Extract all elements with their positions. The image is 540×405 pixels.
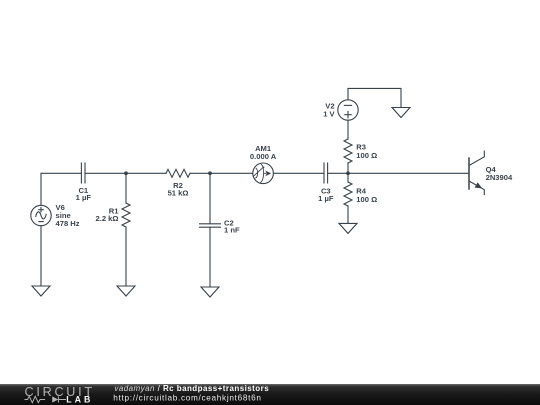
ground (V6) xyxy=(32,286,50,296)
svg-text:100 Ω: 100 Ω xyxy=(356,195,377,204)
label R2 xyxy=(168,181,189,198)
svg-text:http://circuitlab.com/ceahkjnt: http://circuitlab.com/ceahkjnt68t6n xyxy=(113,393,261,402)
svg-text:51 kΩ: 51 kΩ xyxy=(168,189,189,198)
label V6 xyxy=(56,203,80,228)
svg-text:1 V: 1 V xyxy=(323,110,335,119)
wire node A to R1 xyxy=(125,173,127,203)
label C3 xyxy=(318,186,334,203)
svg-text:vadamyan / Rc bandpass+transis: vadamyan / Rc bandpass+transistors xyxy=(114,384,269,393)
svg-text:2N3904: 2N3904 xyxy=(486,173,513,182)
resistor R3 xyxy=(344,139,352,163)
wire node B to C2 xyxy=(209,173,211,224)
wire R2 to node B xyxy=(190,172,210,174)
capacitor C1 xyxy=(81,163,85,183)
wire R4 to ground xyxy=(347,206,349,223)
ground (C2) xyxy=(201,287,219,297)
node C junction xyxy=(346,171,350,175)
label C1 xyxy=(76,186,92,202)
node B junction xyxy=(208,171,212,175)
wire V6 top lead to C1 xyxy=(41,173,81,205)
svg-text:1 nF: 1 nF xyxy=(224,225,240,234)
resistor R1 xyxy=(122,203,130,227)
wire AM1 to C3 xyxy=(273,172,324,174)
voltage source V6 xyxy=(31,205,51,225)
wire node C to R3 xyxy=(347,163,349,173)
wire V6 to ground xyxy=(40,226,42,286)
capacitor C3 xyxy=(324,163,328,183)
label V2 xyxy=(323,101,335,118)
ground (R1) xyxy=(117,286,135,296)
label Q4 xyxy=(486,165,513,182)
node A junction xyxy=(124,171,128,175)
wire C1 to node A xyxy=(85,172,126,174)
footer bar xyxy=(0,384,540,405)
label R3 xyxy=(356,143,377,161)
wire node C to R4 xyxy=(347,173,349,182)
wire R3 to V2 xyxy=(347,120,349,139)
svg-text:0.000 A: 0.000 A xyxy=(250,152,277,161)
svg-text:1 µF: 1 µF xyxy=(76,193,92,202)
label AM1 xyxy=(250,144,277,161)
label R4 xyxy=(356,186,377,203)
ground (V2) xyxy=(392,108,410,118)
resistor R2 xyxy=(166,169,190,177)
transistor Q4 xyxy=(469,151,484,195)
ammeter AM1 xyxy=(253,163,274,184)
wire V2 to ground xyxy=(348,88,401,107)
label R1 xyxy=(96,206,120,223)
ground (R4) xyxy=(339,223,357,233)
resistor R4 xyxy=(344,182,352,206)
wire node B to AM1 xyxy=(210,172,253,174)
wire node A to R2 xyxy=(126,172,166,174)
CircuitLab logo resistor zigzag and diode xyxy=(25,396,67,402)
svg-text:100 Ω: 100 Ω xyxy=(356,151,377,160)
voltage source V2 xyxy=(338,100,358,120)
svg-text:LAB: LAB xyxy=(66,395,93,405)
svg-text:2.2 kΩ: 2.2 kΩ xyxy=(96,214,119,223)
svg-text:478 Hz: 478 Hz xyxy=(56,219,80,228)
svg-text:1 µF: 1 µF xyxy=(318,194,334,203)
capacitor C2 xyxy=(200,224,221,227)
wire C3 to node C xyxy=(328,172,348,174)
wire node C to Q4 base xyxy=(348,172,469,174)
label C2 xyxy=(224,218,240,234)
wire C2 to ground xyxy=(209,227,211,287)
wire R1 to ground xyxy=(125,227,127,286)
